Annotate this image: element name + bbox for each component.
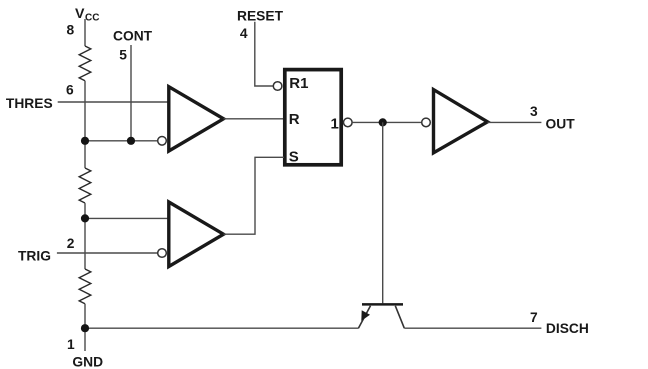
transistor Q1 emitter arrow [361, 310, 370, 321]
wire THRES to comparator U1 plus input [58, 101, 169, 103]
node junction CONT tap [127, 137, 135, 145]
wire U1 output to latch R input [224, 118, 285, 120]
wire divider tap to U2 plus input [85, 217, 169, 219]
svg-text:1: 1 [331, 116, 339, 133]
svg-text:CONT: CONT [113, 28, 153, 43]
wire latch output to buffer input [352, 121, 421, 123]
wire rail between R1 and R2 [84, 81, 86, 168]
wire rail between R2 and R3 [84, 203, 86, 269]
flip-flop U3 (latch box) [285, 70, 341, 165]
svg-text:3: 3 [530, 104, 538, 119]
svg-text:R1: R1 [289, 75, 308, 92]
node junction latch output / discharge branch [379, 118, 387, 126]
svg-text:DISCH: DISCH [546, 321, 589, 336]
svg-text:5: 5 [119, 48, 127, 63]
svg-text:R: R [289, 111, 300, 128]
svg-text:OUT: OUT [546, 117, 576, 132]
comparator U1 (threshold) [169, 87, 224, 151]
svg-text:2: 2 [67, 236, 75, 251]
wire divider tap to U1 minus input [85, 140, 158, 142]
svg-text:6: 6 [66, 82, 74, 97]
pin bubble U2 inverting input [158, 249, 167, 258]
node junction rail/GND wire [81, 324, 89, 332]
wire CONT vertical [130, 45, 132, 141]
svg-text:1: 1 [67, 337, 75, 352]
transistor Q1 collector [395, 306, 404, 328]
wire rail bottom segment to GND [84, 304, 86, 351]
svg-text:S: S [289, 148, 299, 165]
pin bubble U1 inverting input [158, 137, 167, 146]
svg-text:THRES: THRES [6, 96, 53, 111]
svg-text:7: 7 [530, 310, 538, 325]
svg-text:GND: GND [72, 354, 103, 369]
wire buffer output to OUT [488, 121, 542, 123]
node junction rail/TRIG tap [81, 214, 89, 222]
wire TRIG to comparator U2 minus input [57, 252, 158, 254]
buffer U4 (output stage) [434, 90, 488, 153]
transistor Q1 base bar [362, 303, 403, 306]
resistor R3 (lower divider) [79, 269, 91, 304]
svg-text:8: 8 [67, 22, 75, 37]
wire GND rail to Q1 emitter [85, 327, 359, 329]
pin bubble latch R1 input [273, 82, 282, 91]
resistor R1 (upper divider) [79, 46, 91, 81]
pin bubble buffer input [422, 118, 431, 127]
wire Q1 collector to DISCH [404, 327, 541, 329]
wire U2 output to latch S input [224, 157, 285, 234]
svg-text:V: V [75, 6, 85, 22]
transistor Q1 emitter [358, 306, 370, 328]
svg-text:RESET: RESET [237, 8, 284, 23]
wire RESET to latch R1 input [255, 22, 273, 86]
node junction rail/THRES tap [81, 137, 89, 145]
comparator U2 (trigger) [169, 202, 224, 267]
resistor R2 (middle divider) [79, 168, 91, 203]
svg-text:CC: CC [85, 13, 99, 24]
wire VCC rail top segment [84, 19, 86, 46]
pin bubble latch output [344, 118, 353, 127]
svg-text:4: 4 [240, 26, 248, 41]
svg-text:TRIG: TRIG [18, 249, 51, 264]
power VCC label [75, 6, 99, 24]
wire discharge branch vertical to Q1 base [382, 122, 384, 303]
